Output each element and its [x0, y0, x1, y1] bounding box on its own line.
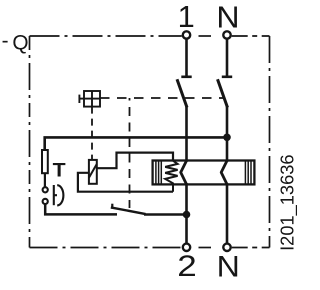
wire pole1 top stem — [181, 39, 232, 77]
poleN primary chevron through CT — [221, 161, 227, 185]
svg-text:2: 2 — [177, 250, 197, 283]
junction dot on pole1 — [183, 211, 191, 219]
terminal N bottom circle — [223, 244, 230, 251]
aux contact fixed tick — [111, 204, 113, 209]
CT left winding hatch — [156, 161, 161, 185]
mechanical link to aux contact (dashed) — [129, 98, 131, 208]
relay left lead wire — [78, 173, 173, 192]
wire resistor to button — [44, 173, 46, 187]
svg-text:N: N — [217, 250, 240, 283]
switch blade pole1 — [177, 79, 187, 107]
poleN fixed contact bar — [222, 76, 232, 79]
CT right winding hatch — [245, 161, 251, 185]
mechanical link horizontal (dashed) — [100, 97, 224, 99]
svg-text:-: - — [2, 30, 9, 53]
wire aux contact to pole1 — [144, 213, 187, 216]
current transformer core box — [153, 161, 255, 185]
mechanical link square to relay (dashed) — [91, 107, 93, 160]
svg-text:I201_13636: I201_13636 — [277, 154, 299, 250]
trip relay diagonal — [89, 164, 97, 178]
label -Q — [2, 30, 29, 55]
trip relay coil — [89, 160, 97, 184]
terminal 2 circle — [183, 244, 190, 251]
wire poleN mid — [226, 107, 229, 162]
svg-text:Q: Q — [12, 31, 28, 54]
pole1 fixed contact bar — [181, 76, 191, 79]
wire button to aux contact — [45, 204, 117, 215]
pole1 primary chevron through CT — [181, 161, 187, 185]
terminal N top circle — [223, 31, 230, 38]
wire poleN top stem — [226, 39, 229, 76]
wire pole1 bottom — [185, 183, 188, 243]
relay right lead wire — [97, 153, 173, 169]
trip mechanism square symbol — [79, 91, 100, 107]
test button contact top — [43, 187, 48, 192]
wire poleN bottom — [226, 183, 229, 243]
secondary winding zigzag in CT — [165, 161, 177, 192]
device outline Q (dash-dot enclosure border) — [30, 36, 270, 248]
switch blade poleN — [218, 79, 228, 107]
test button contact bottom — [43, 199, 48, 204]
svg-text:T: T — [53, 159, 66, 181]
svg-text:1: 1 — [178, 0, 195, 34]
junction dot on N — [223, 134, 231, 142]
wire pole1 mid — [185, 107, 188, 162]
svg-text:N: N — [216, 0, 239, 34]
test resistor — [42, 150, 48, 173]
test wire top (to N) — [45, 137, 227, 150]
test button actuator — [54, 185, 64, 205]
terminal 1 circle — [183, 31, 190, 38]
aux contact blade — [111, 207, 146, 214]
